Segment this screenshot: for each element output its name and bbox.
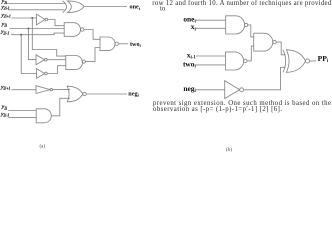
wire y2i branch down to inverter A — [28, 29, 36, 60]
nand gate NANDb3 — [254, 33, 276, 51]
node y2i (row 4 label) — [1, 21, 7, 27]
xnor gate XNOR1 (PP output) — [283, 50, 310, 73]
node y2i (neg section label) — [1, 104, 7, 110]
wire neg to inverter D — [196, 89, 225, 91]
inverter C (neg section) — [36, 86, 53, 94]
svg-text:y2i+1: y2i+1 — [0, 85, 11, 91]
node two_i input label (figure b) — [183, 59, 197, 69]
wire inverter B output up to NAND2 in3 — [47, 66, 66, 74]
node y2i-1 (row 2 label) — [0, 4, 9, 10]
wire XOR1 output to one label — [84, 6, 127, 8]
wire y2i-1 row5 to NAND1 in3 — [11, 33, 64, 35]
svg-text:negi: negi — [128, 90, 139, 97]
svg-text:y2i-1: y2i-1 — [0, 4, 9, 10]
wire y2i-1 branch down to inverter B — [21, 35, 36, 74]
nand gate NAND2 — [66, 56, 86, 70]
wire x_i to NANDb1 in2 — [196, 27, 226, 29]
svg-text:twoi: twoi — [130, 41, 142, 48]
paragraph text top right — [152, 0, 332, 13]
node PP_i output label — [318, 54, 329, 64]
wire y2i-1 to AND in2 — [8, 116, 36, 118]
wire inverter C output to NOR in1 — [53, 89, 71, 91]
wire NAND1 output to final NAND in1 — [84, 30, 100, 40]
node y2i+1 (row 3 label) — [0, 13, 11, 19]
node y2i-1 (neg section label) — [0, 111, 9, 117]
svg-text:y2i: y2i — [1, 104, 7, 110]
figure label (a) — [40, 144, 46, 149]
wire AND1 output up to NOR in2 — [51, 98, 70, 116]
wire one to NANDb1 in1 — [196, 19, 226, 21]
inverter B (y2i-1) — [37, 69, 48, 79]
svg-text:(b): (b) — [226, 146, 232, 152]
wire y2i+1 to inverter C — [12, 89, 36, 91]
svg-text:row 12 and fourth 10. A number: row 12 and fourth 10. A number of techni… — [152, 0, 332, 7]
node x_i input label (figure b) — [191, 22, 197, 32]
paragraph text bottom right — [153, 100, 331, 113]
nand gate NANDb2 — [226, 52, 248, 70]
inverter T (y2i+1) — [37, 14, 48, 25]
svg-text:to: to — [160, 6, 166, 13]
wire inverter D output up to XNOR in2 — [244, 67, 286, 90]
nor gate NOR1 (neg output) — [67, 86, 86, 102]
wire NANDb3 output down to XNOR in1 — [276, 42, 285, 55]
node x_i-1 input label (figure b) — [187, 50, 197, 60]
wire NAND2 output up to final NAND in2 — [85, 48, 100, 62]
wire NANDb1 output down to NANDb3 in1 — [248, 25, 254, 37]
svg-text:onei: onei — [130, 4, 141, 11]
nand gate NANDb1 — [226, 16, 248, 34]
wire NANDb2 output up to NANDb3 in2 — [247, 46, 254, 61]
junction dot on y2i-1 row5 — [20, 34, 22, 36]
inverter D (figure b) — [225, 81, 244, 99]
wire y2i to AND in1 — [8, 110, 36, 112]
wire two to NANDb2 in2 — [196, 64, 226, 66]
node y2i+1 (neg section label) — [0, 85, 11, 91]
svg-text:y2i-1: y2i-1 — [0, 29, 9, 35]
svg-text:negi: negi — [183, 84, 196, 94]
wire y2i+1 to inverter T — [11, 17, 36, 19]
wire NAND3 output to two label — [118, 43, 128, 45]
svg-text:y2i+1: y2i+1 — [0, 13, 11, 19]
svg-text:y2i-1: y2i-1 — [0, 111, 9, 117]
node one_i input label (figure b) — [183, 14, 196, 24]
xor gate XOR1 (one) — [63, 1, 84, 13]
node two_i output label — [130, 41, 142, 48]
node y2i-1 (row 5 label) — [0, 29, 9, 35]
wire XNOR1 output to PP label — [310, 60, 316, 62]
wire inverter A output to NAND2 in2 — [47, 59, 66, 61]
nand gate NAND3 (two output) — [100, 37, 118, 51]
wire inverter T output to NAND1 in1 — [48, 20, 65, 26]
svg-text:PPi: PPi — [318, 54, 329, 64]
svg-text:twoi: twoi — [183, 59, 197, 69]
and gate AND1 (neg section) — [36, 109, 51, 123]
wire y2i-1 to XOR1 in2 — [9, 9, 65, 11]
svg-text:y2i: y2i — [1, 21, 7, 27]
node y2i (row 1 label) — [1, 0, 7, 5]
wire y2i+1 branch down to NAND2 — [32, 18, 66, 56]
nand gate NAND1 — [64, 23, 84, 37]
node neg_i output label — [128, 90, 139, 97]
wire y2i row4 to NAND1 in2 — [10, 28, 65, 30]
node neg_i input label (figure b) — [183, 84, 196, 94]
node one_i output label — [130, 4, 141, 11]
svg-text:(a): (a) — [40, 144, 46, 149]
wire y2i to XOR1 in1 — [7, 3, 65, 5]
figure label (b) — [226, 146, 232, 153]
inverter A (y2i) — [36, 55, 47, 65]
svg-text:observation as [-p= (1-p)-1=p′: observation as [-p= (1-p)-1=p′-1] [2] [6… — [153, 106, 282, 113]
wire NOR1 output to neg label — [86, 93, 127, 95]
wire x_i-1 to NANDb2 in1 — [196, 55, 226, 57]
junction dot on y2i+1 — [31, 17, 33, 19]
junction dot on y2i row4 — [27, 28, 29, 30]
